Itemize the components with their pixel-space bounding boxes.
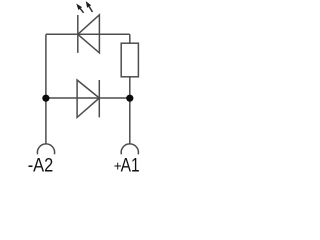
LED D1 cathode bar	[77, 15, 79, 53]
LED arrow 2	[86, 1, 93, 12]
svg-text:-A2: -A2	[28, 155, 54, 177]
LED arrow 1	[76, 4, 83, 13]
node junction dot right	[126, 95, 133, 102]
terminal -A2 arc	[37, 144, 54, 154]
diode D2 cathode bar	[98, 80, 100, 117]
wire right drop to resistor	[129, 34, 131, 43]
wire resistor to junction	[129, 77, 131, 98]
wire bottom horizontal	[46, 97, 130, 99]
resistor R1	[121, 43, 138, 77]
wire top horizontal	[46, 33, 130, 35]
node junction dot left	[42, 95, 49, 102]
terminal +A1 arc	[121, 144, 138, 154]
svg-text:A1: A1	[121, 155, 140, 177]
diode D2 triangle	[77, 80, 99, 117]
wire right rail to terminal	[129, 98, 131, 144]
LED D1 triangle	[78, 15, 100, 53]
wire left rail	[45, 34, 47, 143]
